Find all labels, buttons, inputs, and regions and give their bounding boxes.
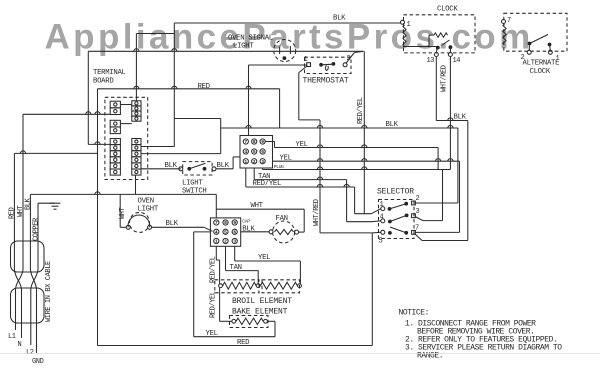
svg-text:WIRE IN BX CABLE: WIRE IN BX CABLE bbox=[45, 261, 53, 322]
alternate clock terminal stubs bbox=[528, 44, 530, 51]
wire RED cable feed y=153.4 from x=14.4 to x=97.5 bbox=[14, 152, 97, 154]
selector blade pole1 bbox=[390, 204, 407, 209]
bus E TAN y=179.6 from plug1 bottom pin x=254.2 bbox=[253, 168, 255, 180]
selector pin 7 terminal and label bbox=[412, 231, 416, 235]
svg-text:2: 2 bbox=[347, 55, 351, 63]
wire WHT vertical x=23 (y 114-241) bbox=[22, 114, 24, 241]
wire top BLK run y=23 from x=174.3 to clock pin 1 bbox=[174, 22, 401, 24]
oven light filament arc bbox=[128, 215, 150, 227]
wire stub y=33.5 x136.4-174.3 bbox=[136, 33, 174, 35]
wire vertical x=174.3 from y=23 down to y=146.5 bbox=[173, 23, 175, 147]
svg-text:7: 7 bbox=[415, 225, 419, 233]
terminal board left column group3 (6 terminals) bbox=[110, 139, 120, 145]
wire vertical x=220.7 (y 118.5-153.6) bbox=[220, 119, 222, 154]
wire vertical x=372.3 from fan line to bottom loop bbox=[371, 233, 373, 346]
wire RED y=88.8 x 97.5-279.6 bbox=[98, 88, 280, 90]
svg-text:2: 2 bbox=[224, 239, 227, 245]
BX cable lower sleeve bbox=[11, 288, 45, 323]
alternate clock terminals 2 and 1 bbox=[527, 50, 531, 54]
svg-text:RED: RED bbox=[198, 83, 211, 91]
wire bus A drop x=457.9 to selector pin2 bbox=[457, 128, 459, 203]
svg-text:7: 7 bbox=[244, 139, 247, 145]
svg-text:THERMOSTAT: THERMOSTAT bbox=[303, 77, 349, 86]
svg-text:OVEN: OVEN bbox=[138, 198, 154, 206]
wire bus C drop x=459.5 to selector pin7 row bbox=[459, 161, 461, 232]
svg-text:4: 4 bbox=[244, 149, 247, 155]
wire board drop x=135.5 from BLK bus bbox=[135, 175, 137, 194]
svg-text:ALTERNATE: ALTERNATE bbox=[523, 60, 560, 68]
BX cable upper sleeve bbox=[11, 241, 45, 272]
light switch contact dots and blade bbox=[187, 167, 191, 171]
wire vertical x=136.4 into terminal board top bbox=[135, 34, 137, 101]
svg-text:7: 7 bbox=[507, 17, 511, 25]
svg-text:LIGHT: LIGHT bbox=[182, 180, 203, 188]
wire y=120.5 x 436-467.8 bbox=[436, 120, 468, 122]
bake element terminals bbox=[232, 319, 236, 323]
thermostat dashed box bbox=[305, 57, 352, 73]
alternate clock switch blade bbox=[530, 35, 549, 44]
svg-text:L1: L1 bbox=[8, 333, 16, 341]
svg-text:YEL: YEL bbox=[206, 330, 218, 338]
faint page rule near bottom bbox=[0, 353, 600, 355]
svg-text:1: 1 bbox=[215, 239, 218, 245]
wire YEL vertical x=193.7 up to plug2 pin4 bbox=[193, 232, 195, 337]
wire clock pin13 drop x=436 to y=120.5 bbox=[435, 57, 437, 121]
svg-text:L2: L2 bbox=[26, 349, 34, 357]
wire plug2 top pin feed x=216.3 bbox=[215, 194, 217, 218]
wire oven light right lead BLK to plug2 bbox=[152, 226, 204, 228]
svg-text:4: 4 bbox=[380, 214, 384, 222]
terminal board left column group1 (2 terminals) bbox=[110, 101, 120, 108]
terminal board left column group2 (2 terminals) bbox=[110, 120, 120, 127]
wire plug2 pin2 drop TAN x=225.5 bbox=[225, 246, 227, 270]
oven signal light dashed circle bbox=[274, 40, 296, 62]
svg-text:COPPER: COPPER bbox=[33, 217, 41, 241]
wire pin3 feed x=442.5 (y 169.5-220.6) bbox=[442, 170, 444, 221]
svg-text:YEL: YEL bbox=[296, 141, 308, 149]
svg-text:BLK: BLK bbox=[25, 197, 33, 210]
svg-text:6: 6 bbox=[233, 229, 236, 235]
oven light lead terminals bbox=[126, 225, 130, 229]
clock terminals 13 and 14 bbox=[434, 53, 438, 57]
svg-text:1: 1 bbox=[380, 201, 384, 209]
svg-text:2: 2 bbox=[253, 159, 256, 165]
oven light dashed circle bbox=[130, 212, 150, 232]
plug P2 pins 3x3 bbox=[214, 220, 219, 225]
alternate clock dashed box bbox=[504, 13, 567, 51]
wire bake right to YEL return bbox=[267, 320, 275, 322]
bus F RED/YEL y=187 from plug1 bottom pin x=245.8 bbox=[245, 168, 247, 187]
selector pin 5 terminal and label bbox=[381, 230, 385, 234]
svg-text:FAN: FAN bbox=[276, 215, 288, 223]
svg-text:GND: GND bbox=[32, 358, 44, 366]
terminal board inner link top bbox=[120, 104, 131, 106]
selector pin 3 terminal and label bbox=[412, 214, 416, 218]
svg-text:2: 2 bbox=[416, 195, 420, 203]
wire broil left feed x=219.6 bbox=[216, 259, 219, 261]
wire top-left boundary vertical x=88 (y 51-144) bbox=[87, 51, 89, 144]
clock switch blade bbox=[442, 40, 450, 46]
svg-text:3: 3 bbox=[416, 208, 420, 216]
svg-text:WHT/RED: WHT/RED bbox=[441, 65, 449, 92]
wire thermostat pin1 diagonal to x=298.8 bbox=[299, 66, 308, 73]
terminal board right column group2 (6 terminals) bbox=[132, 139, 141, 145]
wire COPPER vertical x=38 to cable bbox=[37, 203, 39, 241]
svg-text:1: 1 bbox=[304, 56, 308, 64]
thermostat contact dots and bellows bbox=[319, 63, 323, 67]
svg-text:CLOCK: CLOCK bbox=[437, 6, 458, 14]
svg-text:SELECTOR: SELECTOR bbox=[377, 188, 414, 197]
svg-text:BROIL ELEMENT: BROIL ELEMENT bbox=[232, 297, 292, 306]
thermostat pin 1 terminal (square) bbox=[307, 63, 311, 67]
clock motor coil bbox=[403, 25, 406, 46]
svg-text:1: 1 bbox=[407, 21, 411, 29]
svg-text:14: 14 bbox=[453, 57, 461, 65]
thermostat pin 2 terminal bbox=[343, 63, 347, 67]
svg-text:RED/YEL: RED/YEL bbox=[357, 97, 365, 124]
svg-text:13: 13 bbox=[427, 57, 435, 65]
plug P1 pins 3x3 bbox=[243, 139, 248, 144]
alternate clock coil bbox=[503, 24, 506, 45]
svg-text:RED/YEL: RED/YEL bbox=[253, 180, 282, 188]
svg-text:BLK: BLK bbox=[166, 220, 179, 228]
alternate clock contact dots bbox=[528, 42, 532, 46]
svg-text:TAN: TAN bbox=[230, 264, 242, 272]
wire top boundary horizontal y=51.3 (x 88-363.5) to thermostat feed bbox=[88, 50, 363, 52]
selector dashed box bbox=[379, 200, 415, 239]
svg-text:TERMINAL: TERMINAL bbox=[93, 69, 126, 77]
svg-text:1: 1 bbox=[244, 159, 247, 165]
svg-text:N: N bbox=[18, 341, 22, 349]
wire pin1 diagonal bbox=[371, 209, 380, 214]
BX cable conductors inside lower sleeve bbox=[15, 289, 17, 323]
wire thermostat pin1 left y=65 to x=248.5 bbox=[249, 64, 307, 66]
wire plug2 pin3 drop YEL x=234.7 bbox=[234, 246, 236, 261]
cable leads below sleeve to L1 N L2 GND bbox=[15, 323, 17, 330]
svg-text:9: 9 bbox=[261, 139, 264, 145]
svg-text:OVEN SIGNAL: OVEN SIGNAL bbox=[228, 35, 273, 43]
clock internal wire coil to contacts bbox=[403, 46, 437, 48]
wire bottom RED loop y=345.5 bbox=[98, 345, 373, 347]
fan winding resistor bbox=[275, 229, 294, 234]
svg-text:BLK: BLK bbox=[165, 162, 178, 170]
wire bus E drop x=346.6 to y=221.7 bbox=[346, 180, 348, 222]
svg-text:5: 5 bbox=[224, 229, 227, 235]
svg-text:WHT/RED: WHT/RED bbox=[313, 199, 321, 226]
wire clock pin14 drop x=450.4 to bus D bbox=[449, 57, 451, 170]
wire y=118.5 x 174.3-220.7 bbox=[174, 118, 220, 120]
broil element dashed boxes bbox=[215, 280, 259, 293]
svg-text:NOTICE:: NOTICE: bbox=[399, 309, 429, 318]
wire RED cable vertical x=14.4 down to cable bbox=[13, 153, 15, 241]
BX cable twist section bbox=[14, 270, 21, 289]
broil element resistor right bbox=[260, 282, 297, 289]
wire bus F drop x=354.6 to y=213.7 bbox=[354, 187, 356, 214]
wire fan line y=232.9 to selector pin5 bbox=[320, 232, 372, 234]
selector blade pole2 bbox=[390, 215, 407, 221]
bus D y=169.5 from plug1 bottom pin x=262.6 bbox=[262, 168, 264, 170]
wire RED vertical x=279.6 down to bus A bbox=[279, 89, 281, 128]
wire long left vertical x=97.5 (y 88.8-345.5) bbox=[97, 89, 99, 346]
svg-text:YEL: YEL bbox=[258, 254, 270, 262]
svg-text:RANGE.: RANGE. bbox=[417, 352, 443, 361]
wire WHT feed y=114.3 from x=23 into board bbox=[23, 113, 110, 115]
wire vertical x=248.5 from y=65 to plug1 top bbox=[248, 65, 250, 136]
bake element resistor bbox=[236, 318, 263, 324]
wire pin4 diagonal bbox=[371, 220, 381, 223]
wire vertical x=298.8 (y 72.5-119.9) bbox=[298, 73, 300, 120]
broil element terminals bbox=[219, 284, 223, 288]
wire board right y=153.6 to x=220.7 bbox=[141, 153, 221, 155]
thermostat blade pin2 to top wire bbox=[346, 53, 355, 64]
light switch left terminal bbox=[179, 167, 183, 171]
wire broil left down to bake RED/YEL bbox=[219, 288, 221, 322]
fan dashed circle bbox=[273, 221, 295, 243]
oven signal light contact ticks and filament dot bbox=[279, 47, 281, 55]
light switch right terminal bbox=[212, 167, 216, 171]
svg-text:2: 2 bbox=[521, 54, 525, 62]
bus B YEL y=147.5 from plug1 row1 bbox=[265, 141, 275, 143]
bake element dashed box bbox=[230, 316, 269, 328]
svg-text:RED: RED bbox=[237, 339, 250, 347]
svg-text:LIGHT: LIGHT bbox=[138, 206, 159, 214]
ground symbol near cable bbox=[38, 202, 55, 204]
clock resistor bbox=[434, 33, 448, 37]
svg-text:6: 6 bbox=[261, 149, 264, 155]
wire oven light left lead from BLK bus bbox=[119, 194, 121, 227]
wire WHT from plug2 top to fan right bbox=[216, 208, 304, 210]
wire board right y=146.5 to x=174.3 bbox=[141, 146, 174, 148]
selector contact dots bbox=[388, 207, 392, 211]
svg-text:8: 8 bbox=[253, 139, 256, 145]
selector pin 4 terminal and label bbox=[381, 219, 385, 223]
plug P1 body bbox=[240, 136, 273, 169]
svg-text:SWITCH: SWITCH bbox=[182, 188, 206, 196]
fan lead terminals bbox=[269, 230, 273, 234]
wire selector pin7 diagonal to x=467.8 bbox=[415, 234, 422, 240]
wire BLK cable vertical x=30.4 bbox=[29, 194, 31, 241]
svg-text:PLUG: PLUG bbox=[274, 164, 284, 170]
bus C YEL y=161.2 from plug1 row3 to x=459.5 bbox=[273, 160, 460, 162]
clock terminal stubs 13 14 bbox=[436, 48, 439, 53]
broil element resistor left bbox=[223, 282, 256, 289]
clock pin 1 terminal and label bbox=[401, 20, 405, 24]
svg-text:CAP: CAP bbox=[242, 219, 250, 225]
svg-text:BLK: BLK bbox=[333, 15, 346, 23]
wire jog y=119.9 x 298.8-320 bbox=[299, 119, 320, 121]
svg-text:7: 7 bbox=[215, 220, 218, 226]
svg-text:5: 5 bbox=[379, 238, 383, 246]
svg-text:1: 1 bbox=[556, 55, 560, 63]
terminal board dashed outline bbox=[105, 97, 148, 179]
selector blade pole3 bbox=[390, 227, 406, 233]
svg-text:3: 3 bbox=[233, 239, 236, 245]
selector pin 1 terminal and label bbox=[381, 207, 385, 211]
wire right vertical x=467.8 (y 120.5-240.5) bbox=[467, 121, 469, 241]
wire plug2 to fan left lead BLK bbox=[241, 231, 269, 233]
svg-text:BLK: BLK bbox=[386, 121, 399, 129]
svg-text:3: 3 bbox=[261, 159, 264, 165]
clock dashed box bbox=[404, 15, 476, 53]
wire board feed y=144.4 x 88.3-110.2 bbox=[88, 143, 110, 145]
svg-text:CLOCK: CLOCK bbox=[530, 68, 551, 76]
light switch dashed box bbox=[183, 162, 212, 175]
svg-text:LIGHT: LIGHT bbox=[233, 43, 254, 51]
svg-text:BLK: BLK bbox=[454, 114, 467, 122]
wire board to light switch y=168.8 bbox=[141, 168, 181, 170]
wire pin3 diagonal bbox=[415, 217, 423, 221]
alternate clock pin terminal top-left bbox=[502, 20, 506, 24]
wire light switch to plug1 left bbox=[216, 168, 233, 170]
wire YEL return y=336.7 bbox=[194, 336, 275, 338]
clock contact dots bbox=[436, 46, 440, 50]
svg-text:WHT: WHT bbox=[251, 202, 264, 210]
svg-text:RED: RED bbox=[9, 207, 17, 219]
wire WHT/RED vertical x=320 (y 119.9-232.9) bbox=[319, 120, 321, 233]
bus A BLK y=128 x 220.7-457.9 bbox=[221, 127, 458, 129]
wire bus B drop x=438.1 to bus D bbox=[437, 148, 439, 170]
wire plug2 pin1 drop RED/YEL x=216.3 bbox=[215, 246, 217, 260]
svg-text:RED/YEL: RED/YEL bbox=[210, 291, 218, 318]
BX cable conductors inside upper sleeve bbox=[13, 241, 15, 270]
svg-text:BAKE ELEMENT: BAKE ELEMENT bbox=[232, 308, 288, 317]
svg-text:BOARD: BOARD bbox=[93, 78, 114, 86]
selector pin 2 terminal and label bbox=[412, 201, 416, 205]
svg-text:YEL: YEL bbox=[280, 155, 292, 163]
terminal board right column group1 (4 terminals) bbox=[132, 101, 141, 106]
wire BLK bus y=194.4 x 30.4-216.3 bbox=[30, 193, 216, 195]
terminal board inner link mid bbox=[120, 123, 131, 125]
svg-text:8: 8 bbox=[224, 220, 227, 226]
svg-text:5: 5 bbox=[253, 149, 256, 155]
svg-text:9: 9 bbox=[233, 220, 236, 226]
plug P2 body bbox=[210, 218, 240, 246]
wire RED/YEL long vertical x=364.3 (y 51.3-213.7) bbox=[363, 51, 365, 213]
svg-text:4: 4 bbox=[215, 229, 218, 235]
